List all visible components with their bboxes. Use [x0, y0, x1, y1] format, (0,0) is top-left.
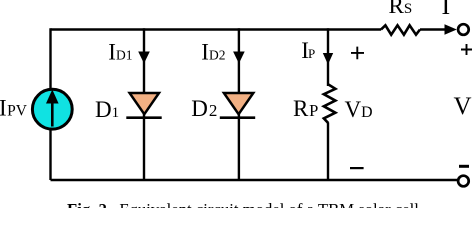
wire top rail [51, 28, 382, 30]
svg-text:RS: RS [389, 0, 413, 18]
wire branch RP [327, 28, 329, 180]
arrowhead IP [323, 53, 333, 65]
arrowhead ID2 [233, 52, 245, 64]
svg-text:D1: D1 [95, 97, 119, 122]
label plus VD [351, 47, 364, 60]
node terminal minus [458, 176, 469, 187]
node terminal plus [458, 24, 469, 35]
wire left vertical [49, 28, 51, 180]
wire branch D2 [238, 28, 240, 180]
label minus VD [350, 167, 364, 169]
resistor RP [324, 85, 336, 124]
arrowhead current I [445, 24, 457, 34]
wire RS to output [420, 28, 446, 30]
svg-text:IPV: IPV [0, 96, 28, 121]
resistor RS [381, 25, 420, 34]
caption Fig. 2 [67, 200, 474, 220]
arrowhead ID1 [138, 52, 150, 64]
diode D1 [126, 93, 161, 118]
label plus V [461, 44, 472, 55]
current source IPV [32, 89, 72, 129]
svg-text:V: V [454, 93, 472, 120]
wire bottom rail [51, 179, 458, 182]
diode D2 [220, 93, 255, 118]
svg-text:I: I [442, 0, 451, 20]
label minus V [459, 165, 469, 168]
svg-text:VD: VD [345, 97, 373, 122]
wire branch D1 [143, 28, 145, 180]
svg-text:D2: D2 [191, 96, 217, 121]
svg-text:ID2: ID2 [201, 40, 225, 65]
svg-text:ID1: ID1 [108, 40, 132, 65]
svg-text:RP: RP [293, 96, 318, 121]
svg-text:IP: IP [301, 38, 315, 63]
